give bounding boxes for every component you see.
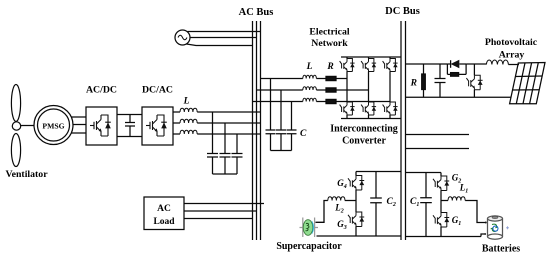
- wire: leg2 vertical: [368, 57, 370, 119]
- transistor S6 (leg3 bottom): [383, 102, 398, 115]
- svg-text:Photovoltaic: Photovoltaic: [485, 37, 538, 48]
- capacitor C (b): [276, 130, 286, 151]
- transistor G1: [433, 213, 449, 228]
- resistor R (dc) leads: [423, 64, 425, 97]
- wire: supercap midpoint to inductor: [345, 200, 356, 202]
- wire: supercap leg: [355, 172, 357, 237]
- svg-text:AC Bus: AC Bus: [239, 7, 274, 18]
- supercapacitor icon: [300, 218, 319, 238]
- wire: inductor to PV panel: [508, 64, 519, 66]
- svg-text:R: R: [326, 62, 333, 72]
- wire: converter bottom rail: [341, 118, 401, 120]
- capacitor Cb: [220, 154, 231, 175]
- junction dots battery stubs: [485, 222, 487, 224]
- wire: supercap converter bottom rail: [317, 235, 402, 237]
- resistor R phase2: [326, 88, 336, 92]
- transistor Q (boost) leads: [473, 64, 475, 75]
- svg-text:C: C: [300, 129, 307, 139]
- wire: converter top rail: [341, 56, 401, 58]
- transistor G4: [348, 176, 364, 191]
- shaft wire: hub to PMSG: [20, 125, 34, 127]
- generator PMSG: [34, 106, 73, 145]
- wire: leg3 vertical: [389, 57, 391, 119]
- wire: boost emitter to bottom rail: [473, 90, 475, 98]
- transistor Q (boost): [466, 75, 482, 90]
- capacitor C (a): [266, 130, 276, 151]
- AC Load box: [144, 197, 184, 230]
- capacitor Cc: [232, 154, 243, 175]
- svg-text:AC: AC: [157, 204, 171, 214]
- wire: battery converter top rail: [406, 172, 442, 174]
- op IGBT inside AC/DC: [90, 115, 111, 136]
- inductor L phase1 (network): [303, 75, 317, 78]
- photovoltaic array panel: [510, 63, 545, 104]
- inductor L1: [448, 197, 465, 201]
- transistor S3 (leg3 top): [383, 59, 398, 72]
- wire: capacitor C common: [271, 150, 292, 152]
- resistor (snubber, boost): [447, 64, 466, 76]
- svg-text:Interconnecting: Interconnecting: [330, 124, 398, 135]
- battery plus mark: [506, 226, 509, 229]
- capacitor C (c): [287, 130, 297, 151]
- transistor G2: [433, 176, 449, 191]
- capacitor C2: [370, 172, 382, 237]
- wire: boost node to inductor: [466, 63, 486, 65]
- converter U1 AC/DC box: [86, 107, 117, 145]
- converter U2 DC/AC box: [142, 107, 173, 145]
- wire: phase 1 to leg1: [336, 78, 347, 80]
- inductor L phase3 (network): [303, 98, 317, 101]
- inductor L (phase c): [180, 130, 197, 134]
- svg-text:Ventilator: Ventilator: [5, 169, 48, 180]
- transistor S5 (leg2 bottom): [361, 102, 376, 115]
- resistor R phase3: [326, 99, 336, 103]
- svg-text:Network: Network: [311, 38, 348, 49]
- capacitor DC-link: [125, 115, 135, 137]
- svg-text:L: L: [183, 97, 190, 107]
- svg-text:AC/DC: AC/DC: [86, 85, 117, 96]
- wire: L to R phase links: [316, 79, 326, 102]
- battery icon: [488, 216, 503, 239]
- wire: capacitor bank common: [213, 173, 238, 175]
- IGBT inside DC/AC: [146, 115, 167, 136]
- wire: battery midpoint to inductor: [441, 200, 448, 202]
- transistor G3: [348, 212, 364, 227]
- capacitor C1: [420, 173, 432, 237]
- wire: AC bus to network phase 3: [253, 101, 303, 103]
- wire: filter to AC bus 3-phase: [197, 112, 260, 134]
- wire: DC bus to PV section rails: [406, 64, 512, 97]
- svg-text:Supercapacitor: Supercapacitor: [276, 241, 342, 252]
- wire: inductor to battery: [465, 201, 485, 223]
- transistor S4 (leg1 bottom): [340, 102, 355, 115]
- wire: DC bus stub lower: [406, 148, 470, 150]
- transistor S2 (leg2 top): [361, 59, 376, 72]
- capacitor Ca: [207, 154, 218, 175]
- resistor R phase1: [326, 76, 336, 80]
- svg-text:Converter: Converter: [342, 136, 386, 147]
- svg-text:DC/AC: DC/AC: [142, 85, 173, 96]
- svg-text:R: R: [410, 79, 417, 89]
- svg-text:Array: Array: [499, 50, 525, 61]
- svg-text:DC Bus: DC Bus: [385, 6, 420, 17]
- svg-text:Electrical: Electrical: [309, 27, 350, 38]
- inductor L (phase b): [180, 119, 197, 123]
- wire: leg1 vertical: [346, 57, 348, 119]
- wire: AC bus to network phase 2: [257, 89, 303, 91]
- wire: battery leg: [440, 173, 442, 237]
- wire: DC link AC/DC to DC/AC: [117, 115, 142, 137]
- node AC Bus (3 vertical lines): [253, 21, 261, 240]
- capacitor (dc link pv): [435, 64, 446, 97]
- wire: AC bus to network phase 1: [261, 78, 303, 80]
- wire: DC bus stub upper: [406, 134, 470, 136]
- wire: inductor to supercapacitor: [316, 201, 328, 223]
- svg-text:L: L: [306, 62, 313, 72]
- inductor L phase2 (network): [303, 87, 317, 90]
- capacitor bank C leads: [271, 79, 292, 131]
- capacitor bank (filter) leads: [213, 112, 238, 154]
- AC source (grid): [175, 30, 190, 45]
- wire: battery converter bottom rail: [406, 234, 486, 237]
- inductor (pv): [486, 60, 508, 65]
- resistor R (dc): [422, 74, 426, 90]
- wire: phase 2 to leg2: [336, 89, 369, 91]
- node DC Bus (2 vertical lines): [401, 21, 406, 240]
- svg-text:PMSG: PMSG: [42, 122, 64, 131]
- wire: PMSG to AC/DC 3-phase: [71, 117, 86, 133]
- wire: DC/AC outputs to filter: [173, 112, 180, 134]
- inductor L2: [328, 197, 345, 201]
- transistor S1 (leg1 top): [340, 59, 355, 72]
- wire: grid to AC bus: [187, 32, 261, 46]
- wind turbine (Ventilator) blades: [11, 85, 20, 167]
- svg-text:Load: Load: [153, 217, 175, 227]
- inductor L (phase a): [180, 108, 197, 112]
- wire: AC load to AC bus: [184, 204, 264, 219]
- svg-text:Batteries: Batteries: [482, 244, 520, 255]
- wire: phase 3 to leg3: [336, 101, 390, 103]
- diode D1 (boost): [447, 60, 466, 75]
- wire: supercap converter top rail: [356, 171, 401, 173]
